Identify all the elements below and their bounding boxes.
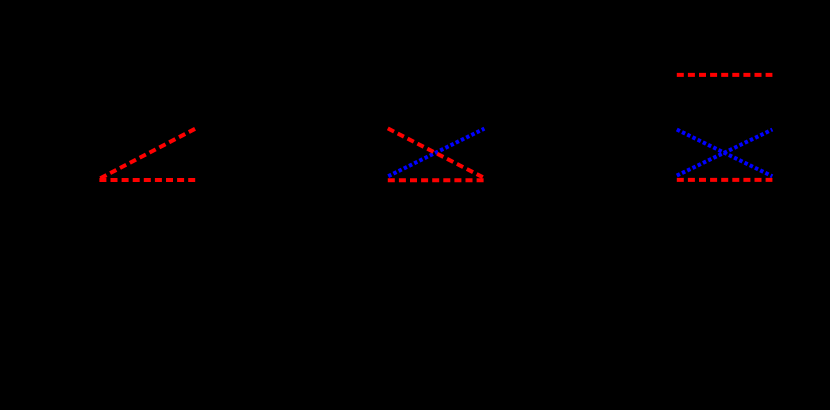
right panel: falling energy level (blue dotted diagonal): [677, 130, 773, 177]
right panel: upper energy level (red dashed horizontal): [677, 73, 773, 77]
middle panel: lower energy level (red dashed horizontal): [388, 178, 484, 182]
middle panel: falling energy level (red dashed diagonal): [388, 128, 483, 177]
left panel: rising energy level (red dashed diagonal): [100, 128, 196, 178]
right panel: rising energy level (blue dotted diagonal): [677, 130, 773, 176]
middle panel: rising energy level (blue dotted diagonal): [388, 129, 484, 177]
right panel: lower energy level (red dashed horizontal): [677, 178, 773, 182]
left panel: lower energy level (red dashed horizontal): [99, 178, 195, 182]
